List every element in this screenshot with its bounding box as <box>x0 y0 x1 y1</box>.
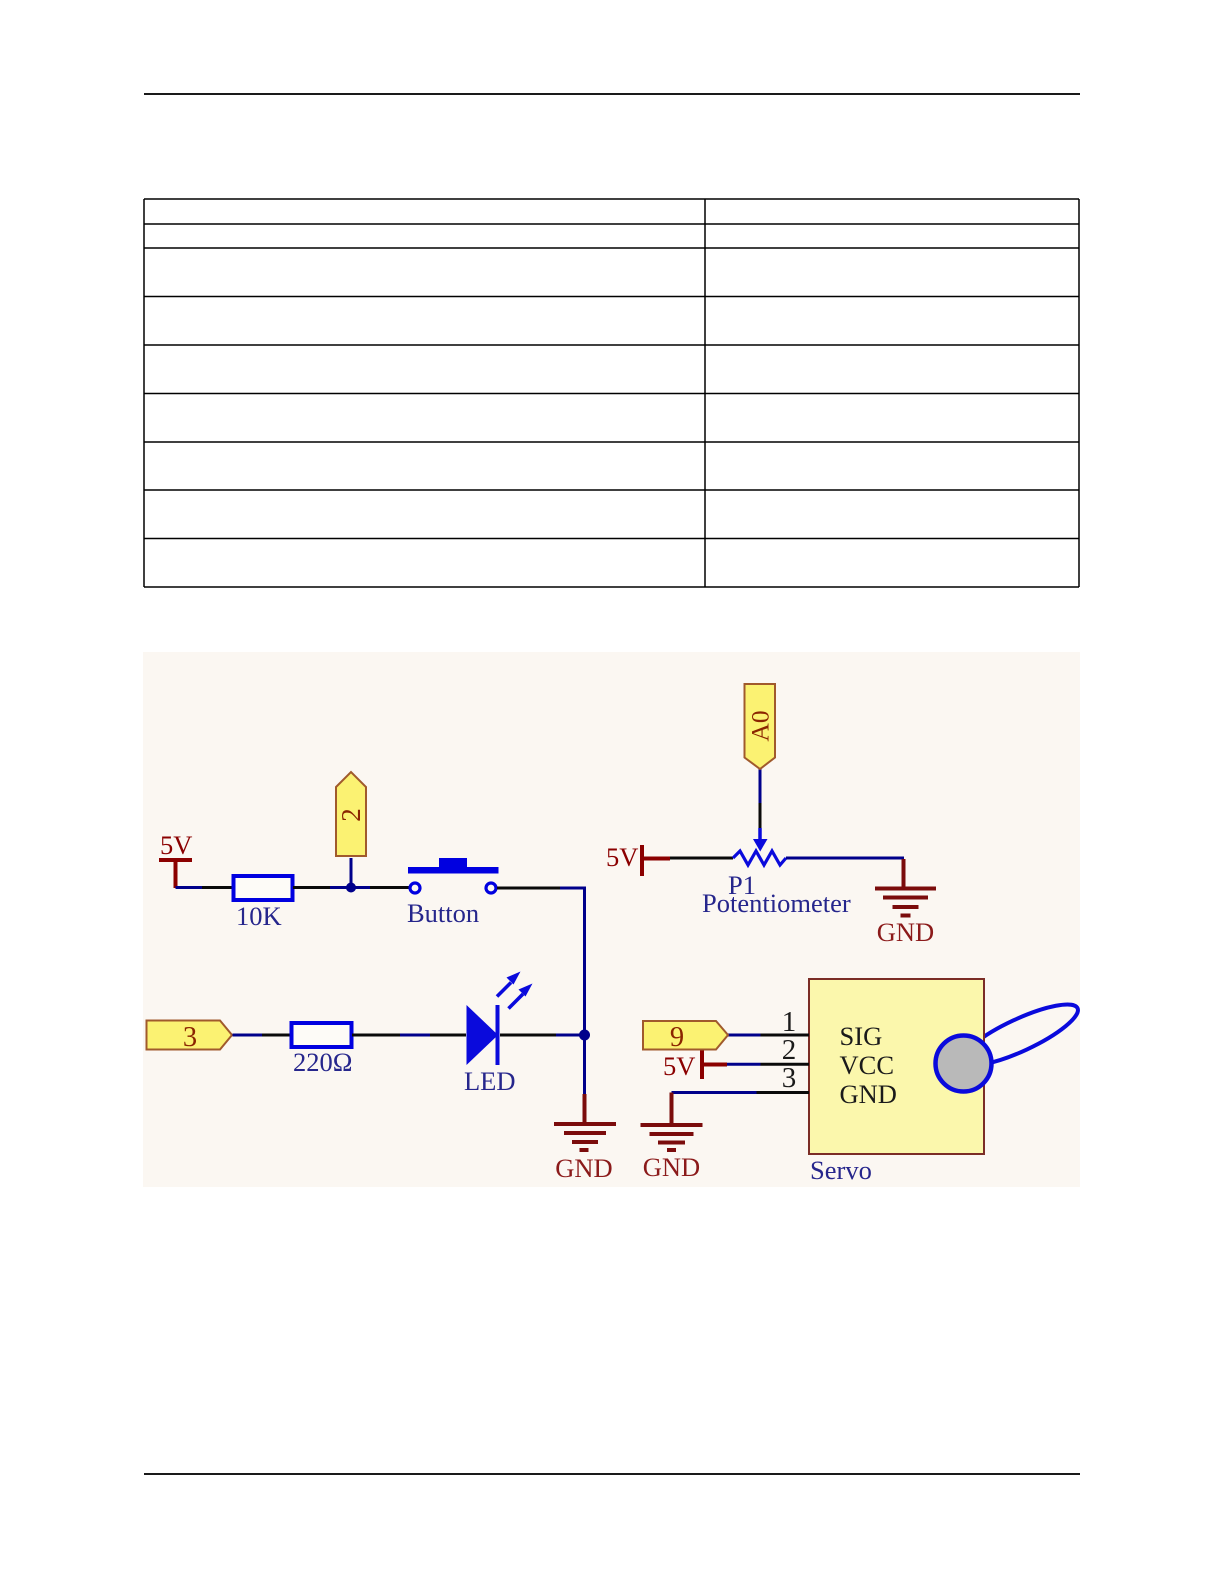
svg-text:220Ω: 220Ω <box>293 1047 352 1077</box>
svg-text:3: 3 <box>782 1062 797 1094</box>
svg-text:5V: 5V <box>606 842 638 872</box>
svg-text:3: 3 <box>183 1022 197 1053</box>
svg-text:LED: LED <box>464 1066 516 1096</box>
svg-text:SIG: SIG <box>840 1021 883 1051</box>
svg-text:Servo: Servo <box>810 1155 872 1185</box>
svg-text:5V: 5V <box>160 830 192 860</box>
svg-text:9: 9 <box>670 1022 684 1053</box>
svg-text:VCC: VCC <box>840 1050 895 1080</box>
svg-text:GND: GND <box>840 1079 897 1109</box>
svg-text:10K: 10K <box>236 901 282 931</box>
svg-text:2: 2 <box>336 808 366 822</box>
svg-text:Button: Button <box>407 898 479 928</box>
svg-text:Potentiometer: Potentiometer <box>702 888 851 918</box>
svg-text:GND: GND <box>555 1153 612 1183</box>
svg-text:GND: GND <box>643 1152 700 1182</box>
svg-text:5V: 5V <box>663 1051 695 1081</box>
svg-text:A0: A0 <box>746 710 775 741</box>
svg-text:GND: GND <box>877 917 934 947</box>
